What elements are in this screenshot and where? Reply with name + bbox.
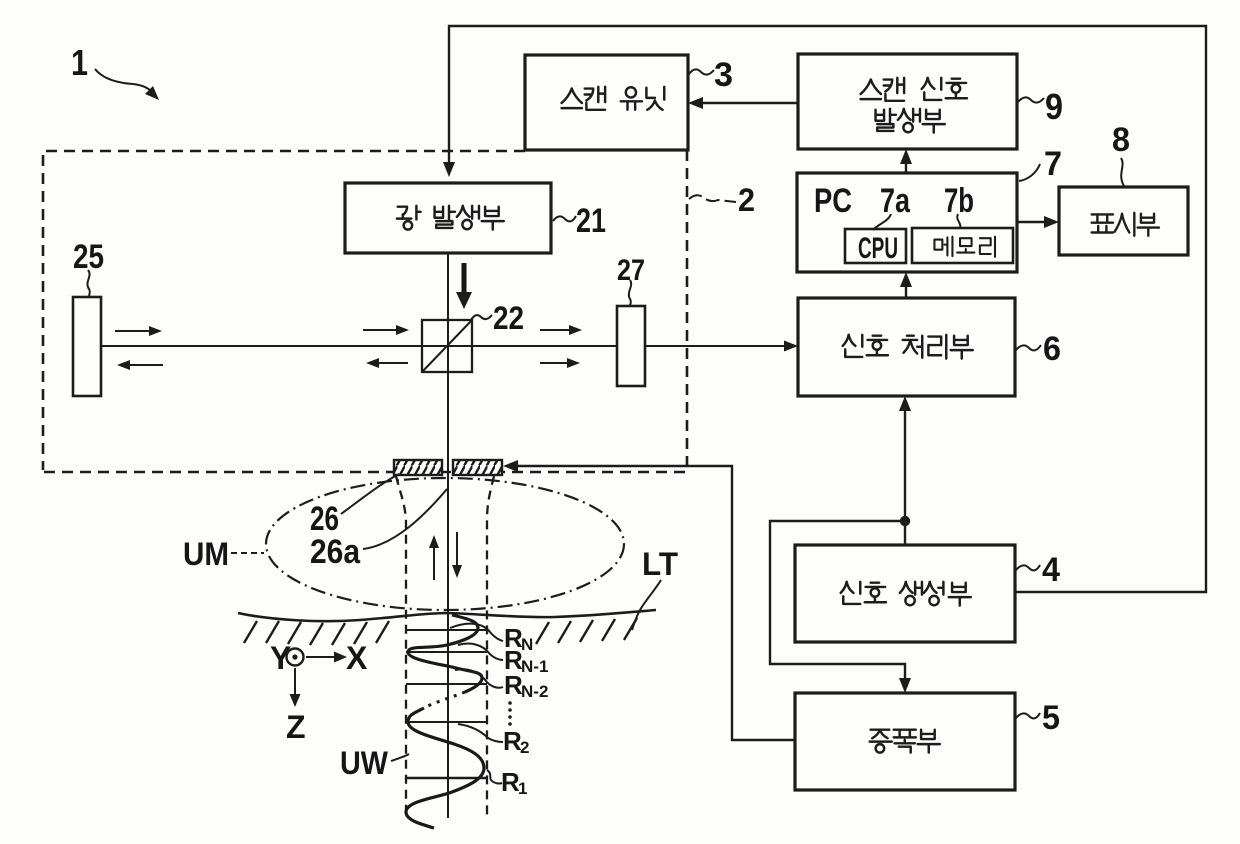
- label 광 발생부: [397, 206, 504, 230]
- box 3 scan unit: [525, 55, 688, 150]
- transducer 26 right hatched block: [453, 460, 502, 475]
- beam arrow left left of 22: [377, 362, 408, 364]
- wire arrow 6 to 7: [905, 284, 907, 298]
- leader RN: [450, 624, 503, 641]
- leader R1: [487, 770, 502, 784]
- svg-text:Y: Y: [270, 640, 291, 676]
- axis Z arrow: [294, 668, 296, 696]
- ultrasonic wave UW lower: [406, 708, 484, 828]
- label 스캔 신호 발생부: [861, 78, 967, 133]
- wire horn to amplifier 5 left: [516, 466, 795, 740]
- axis X arrow: [306, 656, 336, 658]
- wire arrow 7 to 8: [1017, 221, 1046, 223]
- leader squiggle 4: [1016, 565, 1040, 570]
- dashed enclosure 2: [43, 150, 687, 472]
- UM leader dash: [231, 552, 264, 554]
- label 신호 처리부: [843, 335, 973, 359]
- svg-text:4: 4: [1042, 551, 1060, 589]
- leader squiggle 5: [1016, 713, 1040, 718]
- svg-text:1: 1: [71, 42, 88, 83]
- box 8 display: [1059, 187, 1188, 255]
- up arrow in horn: [433, 546, 435, 580]
- ultrasonic wave UW dotted section: [424, 692, 465, 708]
- svg-text:N-1: N-1: [521, 657, 548, 676]
- leader squiggle 21: [553, 216, 576, 221]
- wire optical axis vertical: [447, 253, 449, 818]
- box 7 PC: [797, 173, 1017, 272]
- coordinate axes Y circle: [287, 649, 304, 666]
- wire arrow 9 to 3: [701, 102, 798, 104]
- svg-text:27: 27: [617, 254, 645, 287]
- leader squiggle 25: [87, 270, 89, 297]
- leader RN-1: [458, 644, 503, 660]
- transducer 26 left hatched block: [394, 460, 442, 475]
- beam arrow right left of 22: [363, 329, 398, 331]
- component 27 detector: [617, 306, 645, 386]
- down arrow in horn: [456, 532, 458, 566]
- horn right dashed edge: [487, 476, 494, 818]
- junction node: [900, 516, 910, 526]
- reflection level line R2: [406, 721, 487, 723]
- arrowhead into light generator 21 top: [443, 162, 455, 177]
- svg-text:21: 21: [576, 202, 606, 240]
- leader squiggle 3: [689, 69, 714, 74]
- molten region UM chain-line ellipse: [266, 478, 624, 610]
- leader 26: [341, 474, 399, 514]
- svg-text:22: 22: [493, 300, 524, 336]
- beam arrow right near 25: [115, 330, 151, 332]
- box 6 signal processor: [798, 298, 1015, 396]
- svg-text:9: 9: [1045, 86, 1063, 127]
- dotted ellipsis between RN-2 and R2: [508, 701, 512, 726]
- svg-text:Z: Z: [286, 709, 306, 745]
- svg-text:N-2: N-2: [521, 682, 548, 701]
- svg-text:7a: 7a: [880, 182, 911, 220]
- box 9 scan signal generator: [798, 54, 1017, 149]
- svg-text:6: 6: [1043, 330, 1061, 368]
- svg-text:7: 7: [1044, 145, 1062, 183]
- label 메모리: [934, 237, 995, 257]
- svg-text:LT: LT: [642, 546, 678, 582]
- box 4 signal generator: [795, 545, 1015, 642]
- horn left dashed edge: [396, 476, 406, 815]
- leader 7a: [873, 214, 891, 230]
- leader LT: [632, 580, 661, 630]
- leader 1 wavy arrow: [95, 69, 154, 94]
- svg-text:N: N: [521, 635, 533, 654]
- label 표시부: [1092, 213, 1159, 236]
- svg-text:CPU: CPU: [858, 232, 898, 265]
- svg-text:2: 2: [520, 738, 529, 757]
- leader squiggle 2: [689, 195, 736, 202]
- svg-text:UW: UW: [340, 745, 389, 781]
- beam arrow left near 25: [128, 364, 163, 366]
- ground hatch ticks left: [244, 621, 389, 645]
- wire arrow 7 to 9: [905, 161, 907, 173]
- svg-text:PC: PC: [814, 182, 852, 220]
- reflection level line RN-2: [406, 683, 487, 685]
- leader squiggle 22: [471, 315, 492, 320]
- leader squiggle 8: [1121, 158, 1124, 186]
- label 신호 생성부: [841, 582, 971, 606]
- wire junction loop to amplifier 5 top: [770, 521, 905, 680]
- beam arrow right upper between 22 and 27: [540, 329, 571, 331]
- label 스캔 유닛: [562, 87, 665, 110]
- leader squiggle 27: [629, 280, 631, 306]
- svg-text:2: 2: [738, 182, 755, 218]
- leader 7b: [957, 214, 960, 228]
- box 21 light generator: [345, 183, 551, 253]
- component 25 reference mirror: [73, 297, 101, 396]
- box 5 amplifier: [795, 693, 1015, 790]
- bold emission arrow: [462, 263, 467, 294]
- leader UW: [391, 754, 409, 761]
- leader squiggle 9: [1018, 97, 1044, 102]
- svg-text:8: 8: [1112, 121, 1130, 159]
- wire outer feedback loop from signal generator 4 to scan path: [449, 26, 1206, 592]
- wire optical beam horizontal: [101, 345, 786, 347]
- wire 4 to 6 vertical: [904, 408, 906, 545]
- reflection level line R1: [406, 777, 487, 780]
- svg-text:3: 3: [714, 56, 733, 94]
- leader curve 7: [1019, 164, 1040, 181]
- leader R2: [458, 724, 503, 742]
- box 7a CPU: [845, 229, 906, 263]
- leader RN-2: [455, 669, 503, 688]
- svg-text:UM: UM: [183, 536, 229, 572]
- reflection level line RN: [406, 629, 487, 631]
- svg-text:7b: 7b: [944, 182, 974, 220]
- svg-text:1: 1: [518, 779, 527, 798]
- leader 26a: [363, 489, 447, 549]
- ultrasonic wave UW upper: [408, 615, 482, 692]
- ground hatch ticks right: [536, 618, 637, 644]
- svg-text:26a: 26a: [310, 533, 361, 571]
- svg-text:X: X: [346, 640, 368, 676]
- leader squiggle 6: [1016, 345, 1041, 350]
- land surface LT wavy line: [238, 610, 656, 621]
- reflection level line RN-1: [406, 651, 487, 653]
- box 7b memory: [912, 228, 1013, 263]
- svg-text:5: 5: [1042, 699, 1060, 737]
- beam arrow right lower between 22 and 27: [540, 362, 569, 364]
- label 증폭부: [870, 730, 940, 753]
- svg-text:25: 25: [73, 238, 104, 276]
- beam splitter 22: [422, 320, 472, 372]
